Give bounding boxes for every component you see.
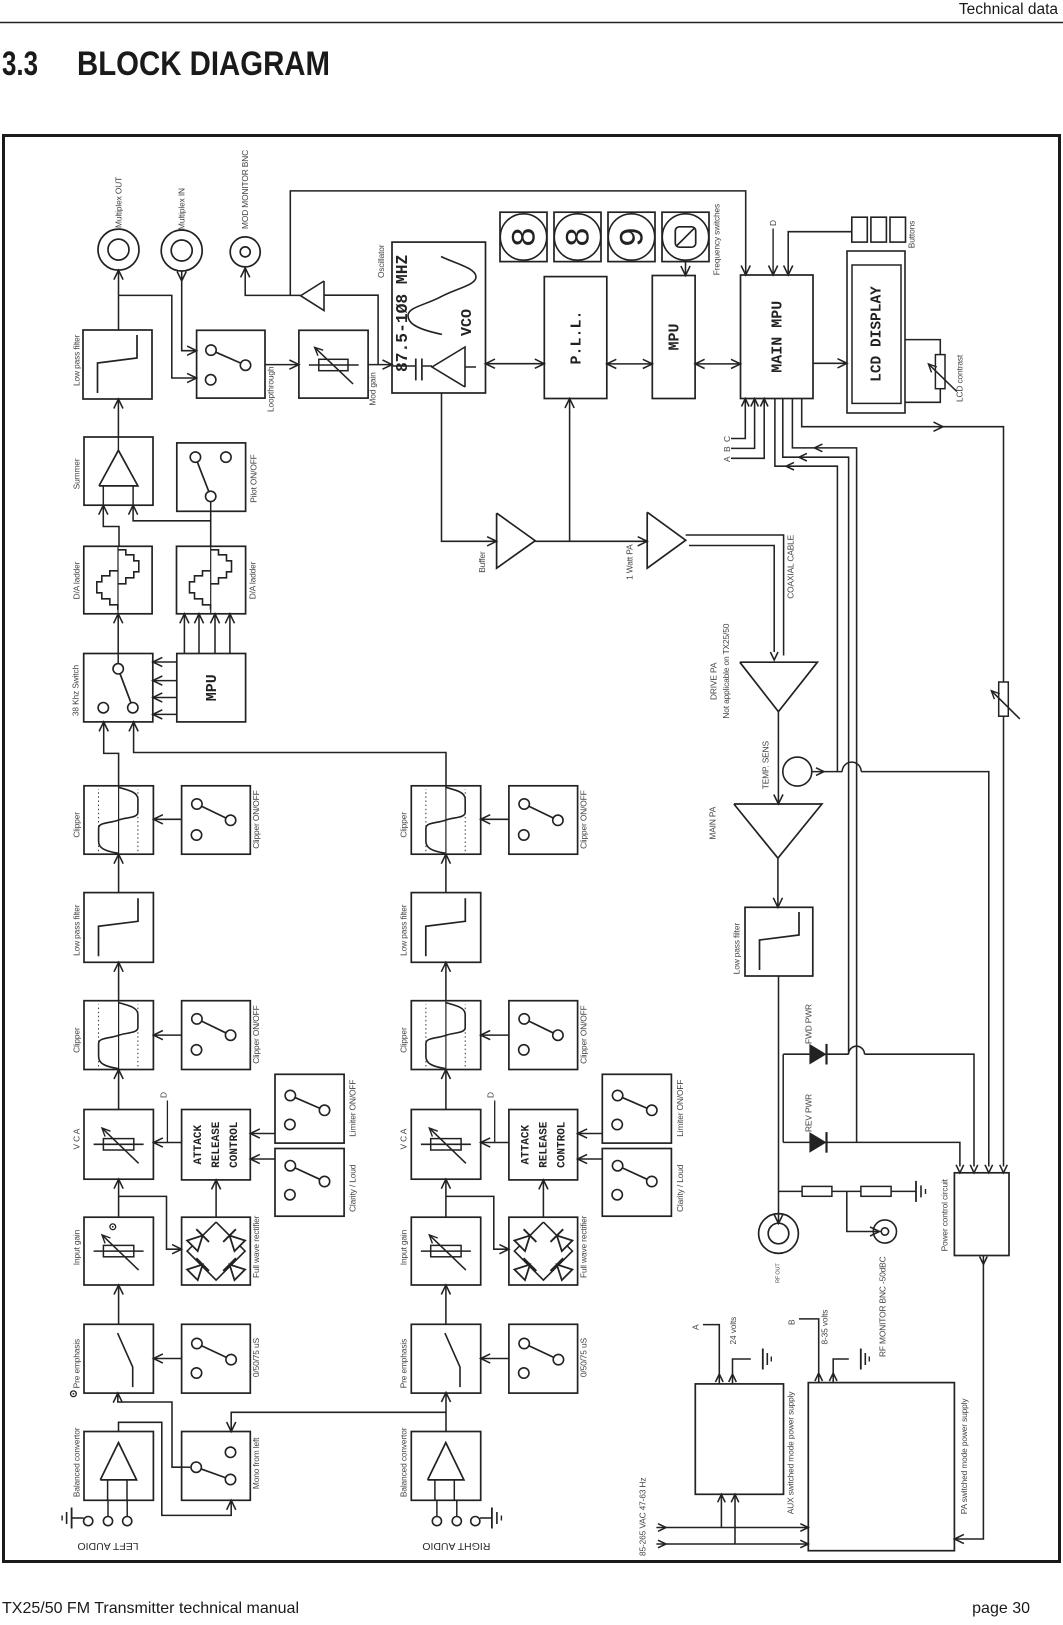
block Low pass filter R: [411, 893, 480, 963]
buffer amp to MOD MONITOR: [324, 295, 378, 364]
block Clipper ON/OFF 1 R: [509, 786, 578, 854]
block Summer: [84, 437, 153, 505]
svg-text:LEFT AUDIO: LEFT AUDIO: [77, 1540, 138, 1552]
svg-text:Balanced convertor: Balanced convertor: [399, 1427, 409, 1497]
svg-text:Full wave rectifier: Full wave rectifier: [251, 1215, 261, 1278]
block 0/50/75 uS R: [509, 1324, 578, 1393]
block Clipper ON/OFF 2 R: [509, 1001, 578, 1070]
block Input gain R: [411, 1217, 480, 1285]
block Clipper 2 L: [84, 1001, 153, 1070]
block Clipper ON/OFF 2 L: [182, 1001, 251, 1070]
svg-text:D/A ladder: D/A ladder: [247, 561, 257, 599]
wire MAINMPU to LCD: [813, 362, 847, 364]
block Balanced convertor L: [84, 1432, 153, 1501]
svg-text:Clarity / Loud: Clarity / Loud: [675, 1164, 685, 1212]
wire PLL-MPU bidirectional: [607, 363, 653, 365]
audio connectors L: [84, 1517, 93, 1526]
block D/A ladder left: [84, 546, 152, 614]
svg-text:A: A: [690, 1324, 700, 1330]
svg-text:Buttons: Buttons: [906, 221, 916, 248]
svg-text:V C A: V C A: [71, 1128, 81, 1149]
wire VCA to clipper2 L: [118, 1070, 120, 1110]
svg-text:MPU: MPU: [204, 674, 221, 701]
svg-text:Input gain: Input gain: [71, 1229, 81, 1265]
block Full wave rectifier R: [509, 1217, 578, 1285]
wire attack to VCA with D label R: [481, 1142, 509, 1144]
AUX outputs: A net 24 volts: [703, 1325, 719, 1384]
wire right clipper to 38k switch: [134, 722, 446, 786]
wire balanced R to mono top: [231, 1412, 446, 1431]
frequency switch 9: [608, 212, 655, 261]
block Loopthrough switch: [197, 330, 265, 398]
temp sense line with hop: [812, 771, 842, 773]
wire balanced L to mono bottom: [119, 1422, 232, 1515]
svg-text:3.3: 3.3: [2, 45, 38, 83]
svg-text:RF MONITOR BNC -50dBC: RF MONITOR BNC -50dBC: [878, 1256, 888, 1357]
block Clipper 2 R: [411, 1001, 480, 1070]
wire rectifier to attack L: [215, 1180, 217, 1217]
svg-text:Clipper ON/OFF: Clipper ON/OFF: [578, 790, 588, 848]
svg-text:Multiplex OUT: Multiplex OUT: [113, 177, 123, 228]
svg-text:B: B: [722, 446, 732, 452]
wire D/A1 to summer: [103, 505, 119, 546]
wire pre-emphasis to input gain R: [445, 1285, 447, 1324]
PA ground: [833, 1359, 849, 1383]
svg-text:BLOCK DIAGRAM: BLOCK DIAGRAM: [77, 45, 330, 83]
svg-text:Oscillator: Oscillator: [376, 244, 386, 278]
svg-text:P.L.L.: P.L.L.: [568, 310, 585, 364]
svg-text:Clipper ON/OFF: Clipper ON/OFF: [251, 1005, 261, 1063]
block Clipper 1 L: [84, 786, 153, 854]
block Pre emphasis R: [411, 1324, 480, 1393]
svg-text:Pilot ON/OFF: Pilot ON/OFF: [248, 454, 258, 502]
block Clarity / Loud L: [275, 1149, 344, 1217]
svg-text:PA switched mode power supply: PA switched mode power supply: [959, 1398, 969, 1515]
svg-text:V C A: V C A: [399, 1128, 409, 1149]
connector Multiplex IN: [161, 230, 202, 271]
wire VCA to clipper2 R: [445, 1070, 447, 1110]
wire VCO-PLL bidirectional: [486, 363, 545, 365]
svg-text:ATTACK: ATTACK: [193, 1124, 205, 1164]
wire MAIN PA to LPF: [777, 858, 779, 907]
wire input gain to VCA and rectifier R: [445, 1179, 447, 1217]
resistor divider to RF monitor: [779, 1190, 803, 1192]
svg-text:Power control circuit: Power control circuit: [939, 1178, 949, 1251]
block Input gain L: [84, 1217, 153, 1285]
svg-text:FWD PWR: FWD PWR: [803, 1004, 813, 1044]
svg-text:Low pass filter: Low pass filter: [71, 904, 81, 956]
wires MPU to D/A2: [183, 614, 185, 654]
block P.L.L.: [544, 277, 607, 399]
svg-text:8: 8: [562, 227, 600, 247]
block MPU (stereo coder): [177, 654, 246, 722]
svg-text:REV PWR: REV PWR: [803, 1094, 813, 1132]
svg-text:D/A ladder: D/A ladder: [71, 561, 81, 599]
block V C A L: [84, 1110, 153, 1180]
block 38 KHz switch: [84, 654, 153, 722]
wire left clipper to 38k switch: [104, 722, 119, 786]
connector MOD MONITOR BNC: [230, 237, 260, 267]
svg-text:Clipper ON/OFF: Clipper ON/OFF: [578, 1005, 588, 1063]
PA power pot: [999, 682, 1009, 716]
svg-text:8-35 volts: 8-35 volts: [819, 1310, 829, 1345]
svg-text:Clipper: Clipper: [399, 1027, 409, 1053]
audio connectors R: [432, 1517, 441, 1526]
coupler line: [782, 1054, 784, 1142]
wire mono out to pre-emphasis L: [118, 1393, 182, 1467]
svg-text:DRIVE PA: DRIVE PA: [709, 662, 719, 700]
wire power control to PA supply: [954, 1256, 983, 1540]
TEMP SENS: [783, 757, 812, 786]
svg-text:TEMP. SENS: TEMP. SENS: [761, 740, 771, 789]
buttons: [852, 217, 868, 242]
svg-text:Pre emphasis: Pre emphasis: [71, 1339, 81, 1388]
block Balanced convertor R: [411, 1432, 480, 1501]
svg-text:RELEASE: RELEASE: [211, 1121, 223, 1168]
wire to RF MONITOR BNC: [847, 1191, 880, 1231]
AUX ground: [733, 1359, 751, 1384]
block MAIN MPU: [741, 275, 814, 399]
svg-text:Technical data: Technical data: [959, 1, 1058, 18]
coaxial cable double line: [686, 535, 784, 656]
block VCO oscillator 87.5-108 MHZ: [392, 242, 486, 393]
block Limiter ON/OFF R: [602, 1074, 671, 1143]
svg-text:D: D: [768, 220, 778, 226]
block LCD DISPLAY: [847, 251, 905, 413]
block Power control circuit: [954, 1173, 1009, 1256]
svg-text:B: B: [786, 1319, 796, 1325]
connector RF MONITOR BNC: [873, 1220, 896, 1243]
svg-text:Limiter ON/OFF: Limiter ON/OFF: [675, 1080, 685, 1137]
svg-text:Loopthrough: Loopthrough: [266, 366, 276, 412]
svg-text:D: D: [158, 1092, 168, 1098]
svg-text:page 30: page 30: [972, 1600, 1030, 1617]
svg-text:LCD DISPLAY: LCD DISPLAY: [869, 286, 885, 382]
wire clipper2-lpf-clipper1 R: [445, 854, 447, 892]
PA outputs: B net 8-35 volts: [799, 1319, 819, 1383]
svg-text:0/50/75 uS: 0/50/75 uS: [578, 1338, 588, 1378]
svg-text:MOD MONITOR BNC: MOD MONITOR BNC: [240, 150, 250, 229]
svg-text:Low pass filter: Low pass filter: [71, 334, 81, 386]
svg-text:RIGHT AUDIO: RIGHT AUDIO: [422, 1540, 490, 1552]
svg-text:TX25/50 FM Transmitter technic: TX25/50 FM Transmitter technical manual: [2, 1600, 299, 1617]
svg-text:8: 8: [508, 227, 546, 247]
svg-text:Clipper: Clipper: [71, 812, 81, 838]
wire Multiplex IN to loopthrough: [182, 271, 197, 351]
wire pre-emphasis to input gain L: [118, 1285, 120, 1324]
svg-text:VCO: VCO: [459, 309, 476, 336]
1 Watt PA amp: [647, 512, 686, 568]
block V C A R: [411, 1110, 480, 1180]
connector RF OUT: [759, 1214, 799, 1254]
block Full wave rectifier L: [182, 1217, 251, 1285]
wire 38k switch to D/A1: [117, 614, 119, 654]
DRIVE PA: [740, 662, 818, 711]
svg-text:Clipper: Clipper: [399, 812, 409, 838]
svg-text:85-265 VAC 47-63 Hz: 85-265 VAC 47-63 Hz: [637, 1478, 647, 1556]
wire buffer junction to PLL: [569, 399, 571, 542]
block Low pass filter L: [84, 893, 153, 963]
svg-text:COAXIAL CABLE: COAXIAL CABLE: [785, 534, 795, 598]
svg-text:LCD contrast: LCD contrast: [955, 354, 965, 402]
svg-text:38 Khz Switch: 38 Khz Switch: [71, 664, 81, 716]
wire summer to MPX LPF: [117, 399, 119, 437]
frequency switch slot: [662, 212, 709, 261]
wire drive PA to MAIN PA: [777, 712, 779, 804]
svg-text:RF OUT: RF OUT: [775, 1263, 781, 1283]
block 0/50/75 uS L: [182, 1324, 251, 1393]
wire buttons to MAIN MPU: [788, 232, 852, 275]
block Mono from left: [182, 1432, 251, 1501]
main RF line: [778, 976, 780, 1224]
wire clipper2-lpf-clipper1 L: [118, 854, 120, 892]
block AUX switched mode power supply: [695, 1384, 783, 1494]
svg-text:1 Watt PA: 1 Watt PA: [624, 544, 634, 580]
svg-text:Pre emphasis: Pre emphasis: [399, 1339, 409, 1388]
taps to AUX supply: [720, 1494, 722, 1527]
wire pilot/DA2 to summer: [210, 511, 212, 546]
svg-text:Mono from left: Mono from left: [251, 1437, 261, 1489]
svg-text:Not applicable on TX25/50: Not applicable on TX25/50: [721, 623, 731, 718]
MAIN PA: [734, 804, 822, 858]
MAINMPU sense lines: [775, 399, 838, 772]
svg-text:MAIN PA: MAIN PA: [708, 806, 718, 839]
block ATTACK RELEASE CONTROL L: [182, 1110, 251, 1180]
svg-text:Input gain: Input gain: [399, 1229, 409, 1265]
wire freq switch to MPU: [685, 262, 687, 276]
svg-text:Mod gain: Mod gain: [367, 372, 377, 406]
wire balanced R to pre-emphasis R: [445, 1393, 447, 1432]
svg-text:Clipper ON/OFF: Clipper ON/OFF: [251, 790, 261, 848]
svg-text:AUX switched mode power supply: AUX switched mode power supply: [786, 1391, 796, 1515]
wire MPX loop branch: [119, 295, 197, 378]
block D/A ladder pilot: [177, 546, 246, 614]
wire LPF to Multiplex OUT: [118, 270, 120, 330]
svg-text:Multiplex IN: Multiplex IN: [176, 188, 186, 230]
connector Multiplex OUT: [98, 229, 139, 270]
block Limiter ON/OFF L: [275, 1074, 344, 1143]
svg-text:24 volts: 24 volts: [728, 1317, 738, 1345]
svg-text:Full wave rectifier: Full wave rectifier: [578, 1215, 588, 1278]
wire input gain to VCA and rectifier L: [118, 1179, 120, 1217]
wire loopthrough to mod gain: [265, 364, 299, 366]
svg-text:CONTROL: CONTROL: [229, 1121, 241, 1168]
svg-text:C: C: [722, 436, 732, 442]
block Clipper ON/OFF 1 L: [182, 786, 251, 854]
block Pilot ON/OFF switch: [177, 443, 246, 511]
svg-text:Summer: Summer: [71, 458, 81, 489]
wire VCO to RF buffer: [442, 393, 497, 541]
wire buffer to 1 Watt PA: [535, 540, 647, 542]
svg-text:A: A: [722, 456, 732, 462]
svg-text:Clarity / Loud: Clarity / Loud: [347, 1164, 357, 1212]
frequency switch 8b: [554, 212, 601, 261]
block Pre emphasis L: [84, 1324, 153, 1393]
LCD contrast pot: [905, 340, 940, 355]
svg-text:CONTROL: CONTROL: [556, 1121, 568, 1168]
svg-text:Low pass filter: Low pass filter: [731, 923, 741, 975]
frequency switch 8: [500, 212, 547, 261]
svg-text:MPU: MPU: [667, 323, 684, 350]
wire MPU-MAINMPU bidirectional: [695, 363, 740, 365]
block Clarity / Loud R: [602, 1149, 671, 1217]
block PA switched mode power supply: [808, 1383, 954, 1551]
block Clipper 1 R: [411, 786, 480, 854]
block Low pass filter (PA): [745, 907, 813, 976]
svg-text:Balanced convertor: Balanced convertor: [71, 1427, 81, 1497]
svg-text:ATTACK: ATTACK: [520, 1124, 532, 1164]
svg-text:Low pass filter: Low pass filter: [399, 904, 409, 956]
svg-text:Buffer: Buffer: [477, 551, 487, 573]
wire attack to VCA with D label L: [153, 1142, 181, 1144]
block ATTACK RELEASE CONTROL R: [509, 1110, 578, 1180]
wire mod gain to VCO: [368, 364, 392, 366]
wire buffer out to BNC: [245, 268, 300, 296]
wire MOD monitor line to MAIN MPU: [290, 191, 745, 296]
wires MPU to 38k switch: [153, 661, 177, 663]
svg-text:Clipper: Clipper: [71, 1027, 81, 1053]
svg-text:9: 9: [616, 227, 654, 247]
MAINMPU to PA power pot line: [802, 399, 1004, 683]
svg-text:Frequency switches: Frequency switches: [711, 204, 721, 275]
block Low pass filter (MPX): [83, 330, 152, 399]
block Mod gain: [299, 330, 368, 398]
svg-text:D: D: [486, 1092, 496, 1098]
wire rectifier to attack R: [542, 1180, 544, 1217]
RF buffer amp: [497, 513, 536, 568]
svg-text:0/50/75 uS: 0/50/75 uS: [251, 1338, 261, 1378]
svg-text:MAIN MPU: MAIN MPU: [770, 301, 787, 373]
block MPU (PLL): [652, 276, 695, 399]
svg-text:Limiter ON/OFF: Limiter ON/OFF: [347, 1080, 357, 1137]
svg-text:RELEASE: RELEASE: [538, 1121, 550, 1168]
